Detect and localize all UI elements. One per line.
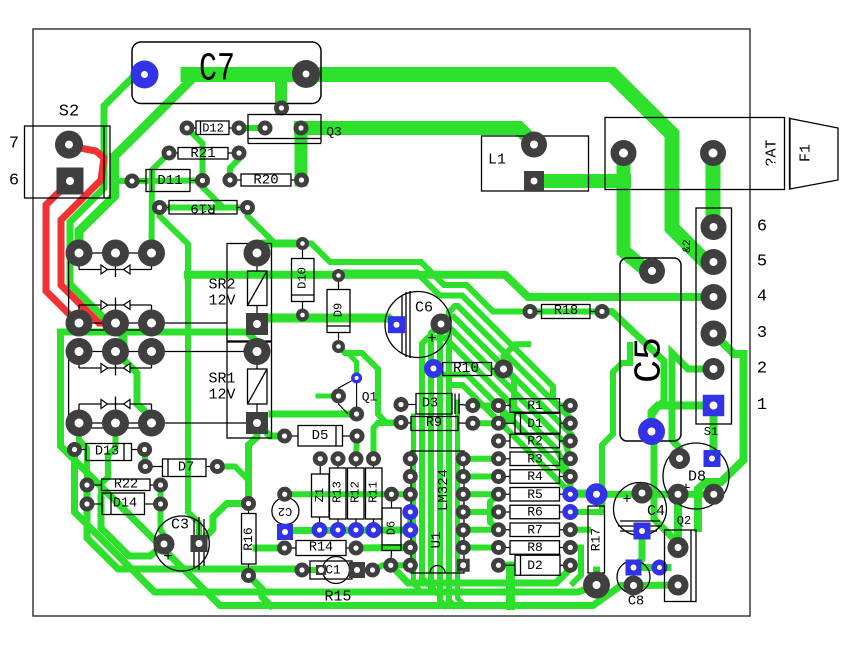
wire D8 pad down to Q2 pad (674, 494, 682, 547)
capacitor C5 (620, 258, 681, 441)
relay SR2 outline (227, 244, 272, 342)
wire R18 internal (530, 309, 602, 315)
wire IC blue pads vertical (407, 512, 413, 530)
wire link R1L to D1L (499, 406, 504, 424)
wire C7 stub to via (275, 76, 287, 108)
connector pad 1 blue square (703, 395, 725, 417)
wire R16 bottom pad to bottom bus (249, 576, 271, 606)
resistor R10 (443, 363, 492, 376)
bridge diodes row4 (78, 404, 80, 423)
wire ladder row links R1 (473, 403, 499, 409)
resistor R9 (411, 417, 458, 431)
svg-text:C6: C6 (415, 300, 433, 317)
wire D5 left to SR1 square (258, 424, 285, 436)
bridge diodes row1 (101, 265, 108, 274)
via blue pad near C8 (652, 560, 668, 576)
wire nest outer bottom bus to C8 (61, 332, 634, 606)
svg-text:D9: D9 (332, 303, 346, 317)
svg-text:C4: C4 (647, 503, 665, 520)
svg-text:R5: R5 (527, 487, 543, 502)
red jumper S2 pin7 to bridge (61, 146, 116, 323)
pads D2 (491, 558, 506, 573)
wire R19 internal (160, 205, 248, 211)
svg-text:D3: D3 (422, 397, 438, 412)
pads Z1 R13 R12 R11 top (313, 451, 328, 466)
resistor R2 (510, 434, 560, 448)
svg-text:D13: D13 (95, 445, 119, 460)
wire connector pad3 down right edge (698, 334, 744, 529)
svg-text:D14: D14 (113, 497, 137, 512)
wire C7 bus down to bridge pad (79, 76, 195, 253)
wire R19 right to D10 top pad (248, 208, 303, 244)
via R17 top blue (586, 483, 608, 505)
op-amp U1 LM324 (411, 451, 464, 573)
wire C4 square to C8 square (634, 537, 643, 568)
svg-text:R12: R12 (349, 481, 363, 503)
svg-text:R6: R6 (527, 505, 543, 520)
svg-text:SR2: SR2 (208, 277, 235, 294)
wire IC pin row link 5 (463, 527, 498, 533)
svg-text:6: 6 (9, 172, 19, 191)
bridge rectifier 2 outline (69, 351, 165, 353)
capacitor C4 (614, 483, 667, 536)
relay SR2 coil (248, 271, 268, 306)
wire C1 left link (302, 567, 317, 573)
svg-text:R20: R20 (253, 173, 278, 189)
svg-text:2: 2 (757, 360, 767, 379)
svg-text:R13: R13 (331, 481, 345, 503)
bridge rectifier 1 outline (69, 252, 165, 254)
wire Q1 base left stub (318, 394, 339, 399)
U1 left pins (403, 451, 418, 466)
wire IC bundle extra vertical 1 (414, 416, 421, 592)
wire F1 right pad to connector pad 6 (706, 153, 721, 227)
svg-text:R9: R9 (426, 416, 442, 431)
wire D9 bottom to R9 left pad (339, 347, 402, 423)
svg-text:D11: D11 (157, 173, 182, 189)
connector pad 2 (703, 358, 725, 380)
wire staircase 5 (422, 338, 570, 584)
diode D12 (196, 121, 229, 135)
wire D12 to Q3 (239, 125, 265, 131)
relay SR1 coil (248, 369, 268, 404)
board outline (33, 29, 750, 616)
resistor R19 (169, 201, 237, 215)
wire R19 left pad long vertical x188 (160, 208, 200, 544)
wire staircase 6 (446, 375, 570, 495)
wire IC pin row link 6 (463, 545, 498, 551)
svg-text:R11: R11 (367, 481, 381, 503)
svg-text:R17: R17 (589, 528, 604, 551)
resistor R16 (242, 514, 257, 565)
svg-text:12V: 12V (208, 387, 235, 404)
pads R2 (491, 434, 506, 449)
red jumper S2 pin6 to bridge (46, 183, 79, 323)
svg-text:U1: U1 (429, 532, 445, 549)
capacitor C6 (385, 292, 451, 358)
svg-text:D2: D2 (527, 558, 543, 573)
resistor R11 (366, 468, 383, 519)
pads R1 (491, 398, 506, 413)
capacitor C1 (323, 557, 350, 584)
wire nest to C3 left pad (101, 497, 164, 556)
diode D5 (298, 426, 343, 447)
resistor R8 (510, 541, 560, 555)
relay SR1 pad (244, 338, 271, 365)
wire D14 right pad to C3 pad (161, 504, 165, 544)
wire staircase 1 (345, 273, 570, 406)
pads R4 (491, 469, 506, 484)
resistor R3 (510, 452, 560, 466)
connector SV1 outline (696, 208, 732, 424)
wire R10 right pad down to D1 left pad (499, 369, 514, 423)
diode D10 (292, 259, 315, 302)
svg-text:R22: R22 (114, 478, 138, 493)
resistor R1 (510, 399, 560, 413)
wire F1 left pad to C5 top pad (624, 153, 653, 271)
wire R22 right to D14 right (158, 485, 164, 504)
svg-text:R19: R19 (190, 200, 215, 216)
svg-text:D1: D1 (527, 416, 543, 431)
svg-text:1: 1 (757, 396, 767, 415)
svg-text:R1: R1 (527, 398, 543, 413)
svg-text:D10: D10 (296, 267, 310, 289)
svg-text:Q2: Q2 (677, 514, 691, 528)
svg-text:R7: R7 (527, 522, 543, 537)
wire R17 bottom stub (593, 570, 600, 585)
wire staircase 4 (431, 327, 570, 592)
resistor R14 (296, 541, 346, 556)
wire C7 top bus to connector pad 5 (188, 75, 714, 263)
wire staircase 7 (453, 385, 597, 494)
wire D10 bottom stub (300, 315, 306, 319)
wire R11 top to R9 left pad (374, 423, 402, 459)
svg-text:D7: D7 (178, 461, 194, 476)
svg-text:R16: R16 (241, 527, 256, 550)
svg-text:R21: R21 (190, 146, 215, 162)
inductor L1 (482, 136, 589, 191)
wire D13 right to D7 left (142, 450, 149, 467)
component leads (187, 127, 196, 129)
capacitor C8 (617, 561, 650, 594)
wire IC bundle extra vertical 2 (458, 402, 463, 606)
wire S1 pad to C5 blue pad (652, 406, 707, 432)
svg-text:R8: R8 (527, 540, 543, 555)
connector pad 5 (701, 249, 727, 275)
svg-text:C8: C8 (628, 595, 644, 610)
wire Q3 to L1 (301, 128, 534, 145)
svg-text:R15: R15 (324, 589, 351, 606)
wire C2 top pad row to IC pin (285, 491, 411, 497)
diode D1 (515, 413, 560, 433)
bridge1 pads row2 (66, 310, 93, 337)
svg-text:C3: C3 (171, 517, 189, 534)
fuse F1 (605, 118, 785, 190)
svg-text:C5: C5 (629, 337, 672, 383)
diode D2 (515, 555, 560, 575)
wire R6 right via C5 under (570, 345, 630, 512)
capacitor C3 (154, 516, 209, 571)
wire connector pad2 down to D8 pad (672, 353, 714, 459)
svg-text:R18: R18 (554, 304, 578, 319)
diode D6 (382, 508, 401, 551)
resistor R17 (588, 506, 605, 573)
wire D2 vertical to bottom bus (506, 566, 515, 606)
svg-text:C7: C7 (199, 48, 235, 93)
wire R8 right to bus A (570, 548, 581, 584)
resistor R20 (241, 174, 291, 186)
connector pad 4 (701, 284, 727, 310)
wire D11 right to R19 right pad (203, 181, 248, 208)
pads R6 (491, 505, 506, 520)
wire SR1 coil to Q1 emitter (272, 411, 357, 418)
svg-text:6: 6 (757, 218, 767, 237)
svg-text:&2: &2 (682, 239, 694, 252)
transistor Q2 (665, 530, 697, 602)
diode D14 (102, 493, 145, 515)
wire staircase1 west hook to D9 (339, 273, 346, 276)
svg-text:R3: R3 (527, 451, 543, 466)
svg-text:S2: S2 (59, 103, 79, 122)
resistor R4 (510, 470, 560, 484)
wire R21 left down to bridge pad (152, 153, 170, 253)
wire C5 blue pad down to Q2 pad (652, 432, 679, 548)
wire SR1 square pad to R16 top pad (249, 429, 258, 504)
wire R14 right to IC pin (356, 544, 410, 552)
svg-text:?AT: ?AT (764, 139, 781, 166)
resistor R13 (330, 468, 347, 519)
svg-text:Z1: Z1 (313, 488, 327, 502)
diode D9 (327, 290, 350, 333)
resistor R18 (542, 305, 591, 319)
wire IC pin row link 1 (463, 456, 498, 462)
connector pad 6 (701, 214, 727, 240)
transistor Q1 (339, 378, 357, 414)
wire C8 blue squares row (634, 564, 669, 571)
wire staircase 2 (449, 306, 570, 606)
wire SR2 square pad to C6 blue pad (257, 318, 397, 324)
relay SR1 outline (227, 342, 272, 438)
bridge diodes row2 (78, 305, 80, 323)
diode D11 (146, 170, 190, 192)
wire L1 pad to F1 vertical (534, 174, 624, 188)
wire R14 left stub (256, 545, 285, 552)
via C2 blue square (277, 524, 293, 540)
wire D7 right to R16 top (217, 467, 248, 504)
wire R7 right stub (570, 527, 588, 533)
wire link R5L to R7L (490, 494, 499, 530)
wire C8 pad to Q2 pad (634, 582, 679, 590)
wire ladder row links D1 (473, 420, 499, 426)
svg-text:C1: C1 (325, 563, 341, 578)
svg-text:R14: R14 (309, 541, 333, 556)
zener Z1 (312, 474, 330, 517)
capacitor C7 (132, 42, 321, 104)
pads R8 (491, 540, 506, 555)
wire R10 right stub to staircase (504, 344, 529, 369)
wire C1 chain to IC pin (373, 565, 411, 570)
svg-text:3: 3 (757, 324, 767, 343)
svg-text:4: 4 (757, 288, 767, 307)
svg-text:+: + (622, 492, 631, 509)
diode bridge D8 (663, 443, 729, 509)
wire R18 right to C5 blue pad (602, 312, 664, 432)
resistor R12 (348, 468, 365, 519)
wire D13 left to bottom bus (75, 452, 597, 592)
wire Q3 to R20 (295, 128, 308, 180)
pads D1 (491, 416, 506, 431)
relay SR2 square pad (246, 313, 268, 335)
wire S1 pad down to D8 blue square (712, 410, 714, 459)
bridge2 pads row3 (66, 338, 93, 365)
relay SR1 square pad (246, 412, 268, 434)
wire link bridge to SR2 (152, 351, 245, 353)
svg-text:Q3: Q3 (326, 125, 342, 140)
connector pad 3 (701, 321, 727, 347)
wire staircase6 west hook to C6 pad (441, 324, 446, 325)
svg-text:Q1: Q1 (362, 390, 378, 405)
resistor R7 (510, 523, 560, 537)
svg-text:R4: R4 (527, 469, 543, 484)
svg-text:S1: S1 (704, 425, 718, 439)
svg-text:5: 5 (757, 253, 767, 272)
svg-text:12V: 12V (208, 293, 235, 310)
relay SR2 pad (244, 240, 271, 267)
resistor R6 (510, 505, 560, 519)
wire R22 left nest to C1 left pad (87, 485, 302, 570)
transistor Q3 (248, 115, 321, 139)
svg-text:D8: D8 (688, 469, 706, 486)
svg-text:LM324: LM324 (436, 469, 452, 511)
wire D5 right down to R12 top pad (356, 436, 357, 459)
svg-text:D12: D12 (202, 122, 224, 136)
pads col A (465, 398, 480, 413)
wire IC pin row link 3 (463, 491, 498, 497)
wire row y494 R5 to D8 pads (570, 491, 713, 498)
diode D13 (86, 444, 132, 461)
pads R7 (491, 522, 506, 537)
resistor R22 (102, 479, 151, 491)
bridge2 pads row4 (66, 410, 93, 437)
wire C3 square pad to R16 top (199, 504, 249, 544)
svg-text:R2: R2 (527, 434, 543, 449)
wire SR2 pad to D10 top (257, 244, 303, 254)
pads R5 (491, 487, 506, 502)
vias blue row (312, 522, 328, 538)
U1 right pins (456, 451, 471, 466)
svg-text:R10: R10 (453, 361, 479, 377)
via C5 blue pad (638, 418, 665, 445)
wire bridge mid pad down (101, 423, 116, 497)
wire IC pin row link 4 (463, 509, 498, 515)
svg-text:SR1: SR1 (208, 371, 235, 388)
wire C7 blue pad weave to bridge (70, 75, 152, 424)
wire bridge pad to R22 vertical (79, 423, 87, 485)
svg-text:D6: D6 (385, 521, 399, 535)
wire blue pad row (293, 527, 411, 535)
svg-text:F1: F1 (798, 144, 815, 162)
diode D3 (416, 394, 452, 415)
svg-text:C2: C2 (278, 504, 292, 518)
wire bus A from D6 pad to D2 right pad (391, 565, 569, 583)
svg-text:L1: L1 (488, 152, 506, 169)
wire IC pin row link 2 (463, 474, 498, 480)
wire D11 left stub (117, 178, 132, 184)
wire staircase 0 (295, 244, 533, 312)
pads R3 (491, 451, 506, 466)
svg-text:D5: D5 (312, 428, 329, 444)
wire C1 right link (358, 567, 373, 573)
bridge diodes row3 (101, 364, 108, 373)
wire staircase 3 (440, 317, 572, 606)
wire SR2 region bus to connector pad 4 (188, 275, 714, 297)
wire D11 internal (132, 178, 203, 185)
resistor R5 (510, 488, 560, 502)
switch S2 (25, 126, 111, 198)
resistor R21 (178, 148, 228, 160)
wire D12 to D11 right pad (187, 128, 203, 181)
capacitor C2 (272, 498, 299, 525)
wire bridge horizontal to SR1 pad (61, 332, 258, 352)
wire R21 to R20 left pad (230, 153, 239, 180)
diode D7 (163, 459, 207, 477)
bridge1 pads row1 (66, 240, 93, 267)
svg-text:7: 7 (9, 135, 19, 154)
wire Q1 collector up to D9 line (348, 354, 357, 379)
